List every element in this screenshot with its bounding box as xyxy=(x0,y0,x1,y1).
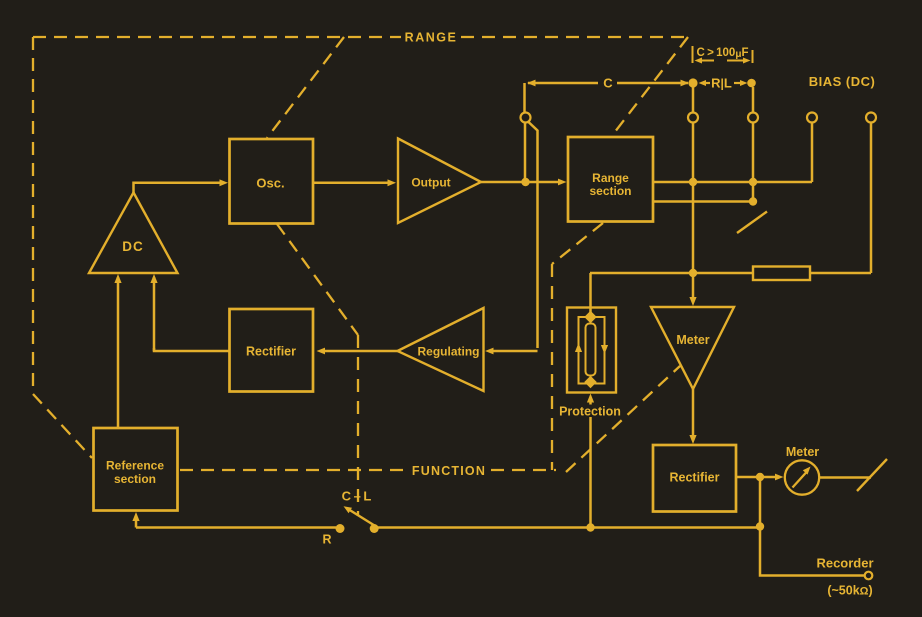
wire arrow into DC from rectifier loop xyxy=(150,274,157,351)
wire dashed diagonal below Osc xyxy=(277,224,358,335)
node junction dot E xyxy=(756,473,764,481)
wire dimension tick left xyxy=(692,46,694,63)
wire dashed left border diagonal to Reference section xyxy=(33,394,92,458)
svg-text:section: section xyxy=(114,472,156,486)
wire left terminal down to main line xyxy=(524,123,527,179)
svg-text:Protection: Protection xyxy=(559,405,621,419)
node junction dot right of R|L xyxy=(747,79,756,88)
wire Osc to Output xyxy=(313,179,396,186)
svg-text:Regulating: Regulating xyxy=(418,345,480,359)
wire dashed diagonal above Osc xyxy=(267,37,344,138)
wire post2 down to R|L dot xyxy=(692,87,695,113)
switch open blade at BIAS xyxy=(737,212,767,234)
label C xyxy=(603,76,613,91)
terminal post 3 xyxy=(748,113,758,123)
svg-text:R: R xyxy=(322,533,331,547)
wire resistor to BIAS post 2 xyxy=(810,272,871,275)
label R xyxy=(322,533,331,547)
block Range section xyxy=(568,137,653,222)
wire post2 terminal to main line xyxy=(692,123,695,183)
wire dashed FUNCTION horizontal left xyxy=(180,469,405,471)
svg-text:Meter: Meter xyxy=(676,333,709,347)
wire dashed vertical left of Protection xyxy=(551,264,553,470)
resistor bias series xyxy=(753,267,810,281)
terminal post 2 xyxy=(688,113,698,123)
svg-text:C > 100μF: C > 100μF xyxy=(697,47,749,60)
wire Regulating to Rectifier xyxy=(317,348,398,355)
wire Rectifier 2 to meter movement xyxy=(736,476,757,479)
wire jog from terminal to regulating feed xyxy=(529,122,538,348)
block Rectifier xyxy=(230,309,314,392)
node junction dot C xyxy=(749,197,757,205)
node diamond junction bottom xyxy=(584,376,596,388)
label RANGE xyxy=(405,31,458,45)
wire DC apex to Osc xyxy=(134,179,229,193)
terminal BIAS post 2 xyxy=(866,113,876,123)
wire R|L right arrow xyxy=(734,80,748,86)
node diamond junction top xyxy=(584,311,596,323)
node junction dot on main line xyxy=(521,178,529,186)
terminal Recorder xyxy=(865,572,873,580)
block Rectifier 2 xyxy=(653,445,736,512)
node switch contact R xyxy=(336,524,345,533)
wire protection inner loop xyxy=(579,317,605,384)
wire BIAS post 2 drop xyxy=(870,123,873,274)
svg-text:Output: Output xyxy=(411,176,450,190)
svg-text:RANGE: RANGE xyxy=(405,31,458,45)
svg-text:Recorder: Recorder xyxy=(816,556,873,571)
wire arrow up on left loop branch xyxy=(575,343,582,352)
node junction dot left of R|L xyxy=(688,78,697,87)
svg-text:(~50kΩ): (~50kΩ) xyxy=(827,584,872,598)
block Protection outline xyxy=(567,308,616,393)
amplifier DC xyxy=(89,193,178,274)
svg-text:Meter: Meter xyxy=(786,445,819,459)
node junction dot F xyxy=(586,523,594,531)
wire Range section to BIAS network xyxy=(653,181,812,184)
wire dimension arrow right xyxy=(727,58,751,64)
wire dashed FUNCTION horizontal right xyxy=(491,469,556,471)
svg-text:C: C xyxy=(603,76,613,91)
wire bottom feedback left xyxy=(136,526,336,529)
wire post3 dot to lower dot xyxy=(752,182,755,202)
meter movement circle xyxy=(785,460,819,494)
svg-text:Range: Range xyxy=(592,171,629,185)
wire dashed diagonal below Range section xyxy=(552,223,603,264)
svg-text:Reference: Reference xyxy=(106,459,164,473)
block Reference section xyxy=(94,428,178,511)
wire Meter to Rectifier 2 xyxy=(689,389,696,444)
node junction dot B xyxy=(749,178,757,186)
label Meter movement xyxy=(786,445,819,459)
wire arrow into DC from Reference section xyxy=(114,274,121,428)
label C–L xyxy=(342,489,372,504)
wire R|L left arrow xyxy=(699,80,711,86)
lamp protection element xyxy=(586,324,596,376)
block Osc xyxy=(230,139,314,224)
svg-text:FUNCTION: FUNCTION xyxy=(412,464,486,478)
svg-text:Rectifier: Rectifier xyxy=(669,471,719,485)
label recorder impedance xyxy=(827,584,872,598)
wire protection bottom feed xyxy=(587,394,594,528)
svg-text:BIAS (DC): BIAS (DC) xyxy=(809,74,876,89)
wire arrow down on right loop branch xyxy=(601,345,608,354)
wire break slash at meter output xyxy=(857,459,887,491)
svg-text:R|L: R|L xyxy=(711,76,732,91)
label C &gt; 100µF xyxy=(697,47,749,60)
wire regulating feed horizontal xyxy=(485,348,538,355)
wire dashed RANGE boundary top-left segment xyxy=(33,36,401,38)
amplifier Meter xyxy=(651,307,734,389)
wire arrow to meter movement xyxy=(764,474,784,481)
node junction dot G xyxy=(756,522,764,530)
terminal measuring post left xyxy=(521,113,531,123)
wire arrow into Reference bottom xyxy=(132,512,139,528)
svg-text:Osc.: Osc. xyxy=(256,176,284,191)
wire protection top feed xyxy=(589,273,592,313)
svg-text:DC: DC xyxy=(122,239,144,254)
wire arrow into Meter xyxy=(689,297,696,306)
wire Range section lower output xyxy=(653,200,750,203)
wire dashed RANGE boundary top-right segment xyxy=(461,36,688,38)
label BIAS (DC) xyxy=(809,74,876,89)
wire post3 terminal to line xyxy=(752,123,755,183)
switch blade C-L xyxy=(344,506,375,525)
wire bottom feedback mid xyxy=(374,526,757,529)
wire corner from C line down to left terminal xyxy=(523,83,526,112)
svg-text:Rectifier: Rectifier xyxy=(246,345,296,359)
node junction dot D xyxy=(689,269,697,277)
wire dashed vertical at C-L switch xyxy=(357,335,359,516)
wire protection corner to resistor xyxy=(590,272,753,275)
wire meter movement output xyxy=(819,476,871,479)
svg-text:section: section xyxy=(589,184,631,198)
label Recorder xyxy=(816,556,873,571)
wire Rectifier to DC loop xyxy=(154,348,230,351)
node switch contact common xyxy=(370,524,379,533)
wire dimension tick right xyxy=(752,50,754,63)
label Protection xyxy=(559,405,621,419)
wire Output to Range section xyxy=(481,179,567,186)
wire recorder branch xyxy=(760,477,864,576)
terminal BIAS post 1 xyxy=(807,113,817,123)
wire post3 down to R|L dot xyxy=(752,87,755,113)
wire meter feed vertical xyxy=(692,182,695,299)
amplifier Regulating xyxy=(398,308,484,391)
wire dashed diagonal to Meter triangle xyxy=(566,366,680,472)
wire BIAS post 1 drop xyxy=(811,123,814,183)
svg-text:C – L: C – L xyxy=(342,489,372,504)
wire C line left segment with arrowheads xyxy=(527,80,689,87)
amplifier Output xyxy=(398,139,481,224)
label FUNCTION xyxy=(412,464,486,478)
wire dashed diagonal above Range section xyxy=(611,37,688,137)
node junction dot A xyxy=(689,178,697,186)
wire dimension arrow left xyxy=(695,58,715,64)
wire dashed left border vertical xyxy=(32,37,34,394)
label R|L xyxy=(711,76,732,91)
